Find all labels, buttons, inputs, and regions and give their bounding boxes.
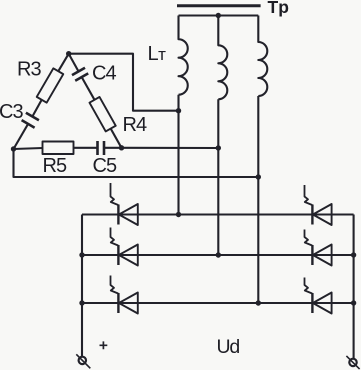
thyristor VS1 (row 1 left) (111, 183, 138, 225)
wire vertex BL to phase C (14, 149, 259, 177)
node phase B to row 2 (216, 252, 221, 257)
svg-text:Ud: Ud (217, 336, 240, 358)
node left bus row 2 (79, 252, 84, 257)
label + (100, 341, 108, 349)
wire right bus (-) (353, 215, 355, 359)
thyristor VS2 (row 2 left) (111, 228, 138, 266)
resistor R3 (37, 68, 64, 102)
resistor R5 (43, 142, 74, 155)
wire phase B (217, 99, 219, 255)
terminal - (right output) (346, 356, 359, 369)
svg-text:C3: C3 (0, 101, 23, 123)
resistor R4 (89, 97, 115, 131)
wire C3 to vertex BL (14, 124, 29, 149)
node phase B junction (216, 145, 221, 150)
transformer core bar Tp (177, 4, 261, 7)
wire phase A (177, 95, 179, 215)
wire R5 to C5 (74, 147, 98, 149)
wire apex to R3 (58, 54, 68, 71)
winding L1 (Lт) (179, 16, 188, 95)
node apex (66, 51, 71, 56)
svg-text:R3: R3 (17, 59, 41, 81)
svg-text:R4: R4 (123, 114, 147, 136)
capacitor C5 (98, 141, 105, 155)
wire left bus (+) (81, 215, 83, 357)
wire secondary bus (179, 14, 259, 16)
node phase C junction (256, 174, 261, 179)
winding L3 (258, 16, 267, 97)
capacitor C4 (72, 68, 88, 81)
wire apex to C4 (69, 54, 79, 72)
wire bridge row 3 (82, 302, 354, 304)
thyristor VS4 (row 1 right) (305, 185, 332, 225)
node right bus row 3 (351, 300, 356, 305)
svg-text:Lт: Lт (148, 43, 167, 65)
node left bus row 3 (79, 300, 84, 305)
wire R3 to C3 (32, 100, 41, 117)
wire C4 to R4 (82, 77, 95, 100)
wire vertex BR to phase B (122, 147, 219, 149)
wire vertex BL to R5 (14, 148, 43, 149)
wire C5 to vertex BR (104, 147, 122, 149)
node phase A junction (176, 108, 181, 113)
winding L2 (218, 16, 227, 100)
wire phase C (257, 96, 259, 303)
node vertex BR (119, 145, 124, 150)
wire bridge row 1 (82, 213, 354, 215)
svg-text:C4: C4 (92, 63, 116, 85)
capacitor C3 (22, 113, 39, 128)
thyristor VS5 (row 2 right) (305, 230, 332, 266)
thyristor VS6 (row 3 right) (305, 278, 332, 314)
node phase A to row 1 (176, 212, 181, 217)
node secondary center tap (216, 13, 221, 18)
svg-text:Tp: Tp (268, 0, 289, 17)
wire R4 to vertex BR (111, 129, 122, 148)
wire bridge row 2 (82, 254, 354, 256)
node phase C to row 3 (256, 300, 261, 305)
wire apex to phase A (69, 54, 179, 111)
svg-text:R5: R5 (43, 155, 67, 177)
svg-text:C5: C5 (93, 155, 117, 177)
thyristor VS3 (row 3 left) (111, 276, 138, 314)
node vertex BL (11, 146, 16, 151)
terminal + (left output) (76, 354, 90, 368)
node right bus row 2 (351, 252, 356, 257)
